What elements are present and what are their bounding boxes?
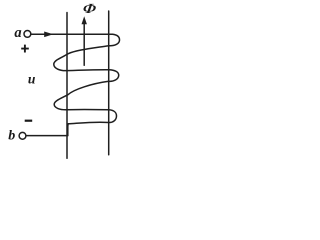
terminal a [24, 31, 31, 38]
wire a to coil [31, 33, 113, 35]
svg-text:u: u [28, 72, 36, 87]
terminal b [19, 132, 26, 139]
flux arrowhead [82, 16, 87, 24]
minus sign [25, 120, 33, 122]
coil winding L [54, 34, 120, 135]
flux arrow shaft [83, 22, 85, 66]
core left rail [66, 13, 68, 159]
svg-text:b: b [8, 129, 15, 144]
current arrowhead on wire a [44, 32, 53, 38]
core right rail [108, 11, 110, 155]
plus sign [21, 45, 29, 53]
label Phi [82, 1, 97, 16]
svg-text:Φ: Φ [82, 1, 97, 16]
svg-text:a: a [14, 25, 21, 41]
wire b [26, 135, 68, 137]
